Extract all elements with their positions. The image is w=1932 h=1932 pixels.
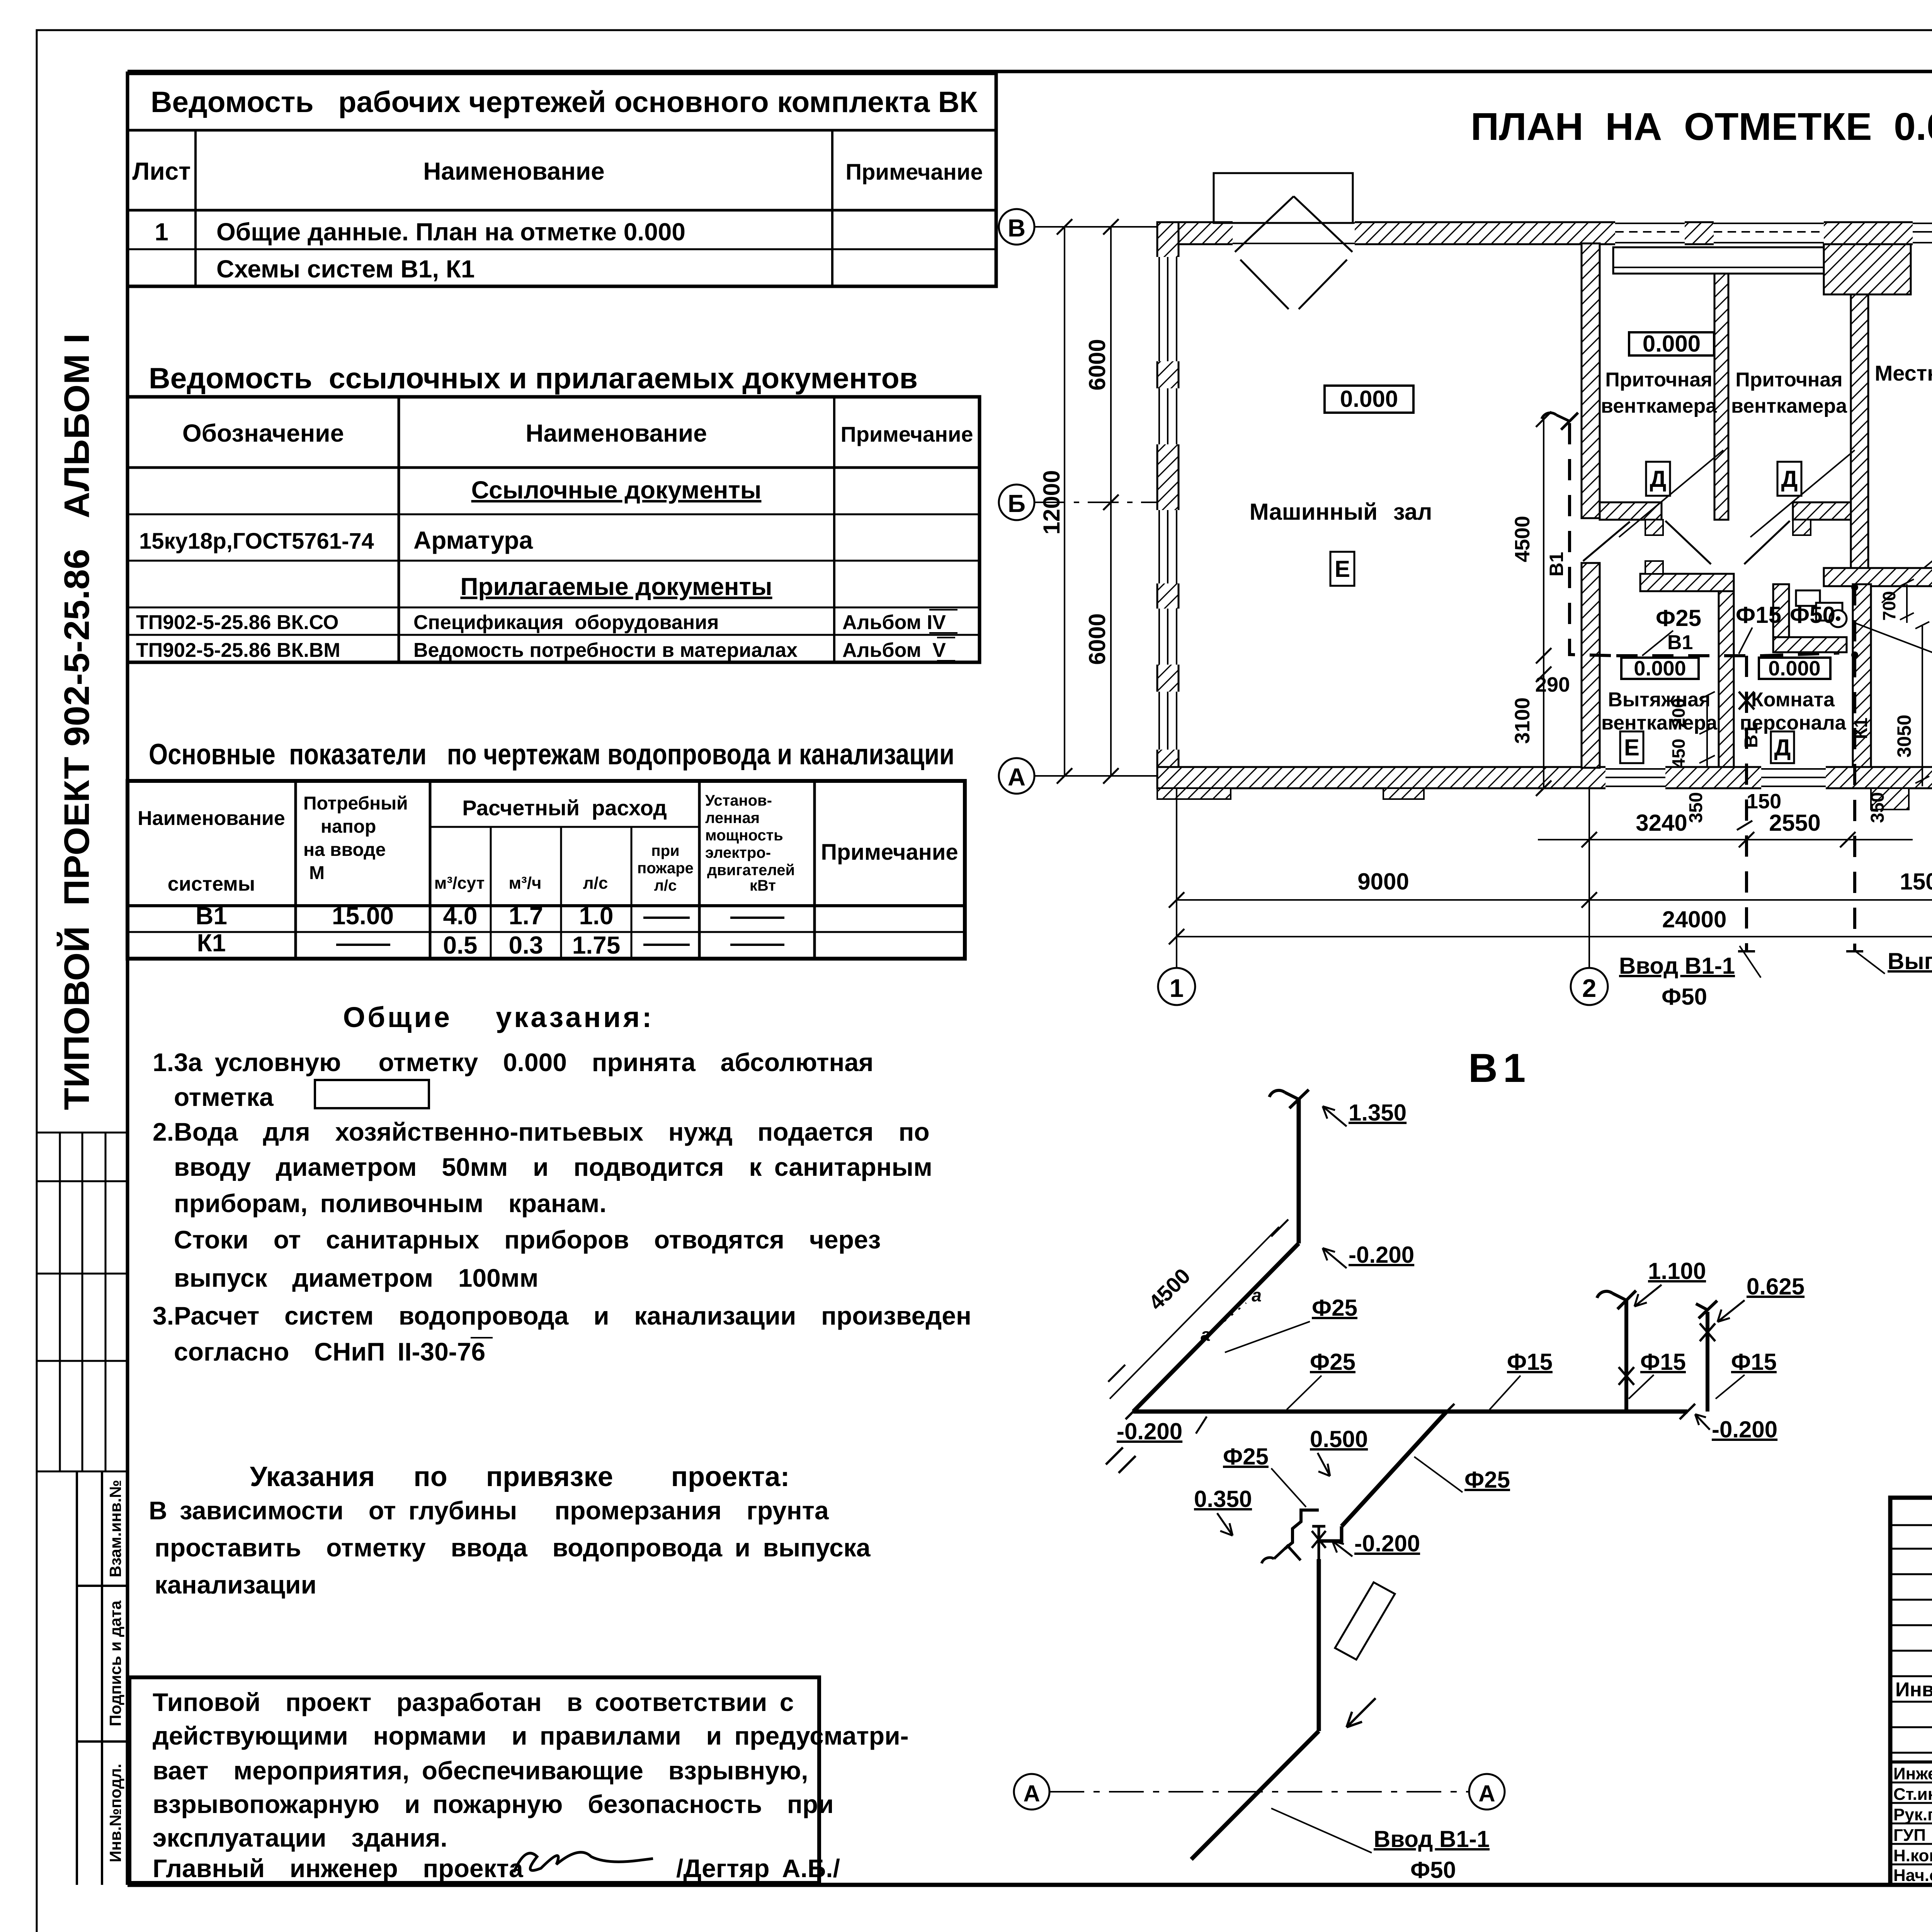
svg-text:при: при [651, 842, 679, 859]
svg-text:/Дегтяр А.Б./: /Дегтяр А.Б./ [676, 1854, 840, 1883]
foundation parallelogram [1335, 1582, 1395, 1660]
svg-text:Ст.инж.: Ст.инж. [1893, 1785, 1932, 1804]
bottom axis lines 1 2 3 [1176, 788, 1177, 968]
svg-text:В1: В1 [1667, 631, 1693, 654]
svg-text:0.350: 0.350 [1194, 1486, 1252, 1512]
svg-text:В зависимости от глубины пр: В зависимости от глубины промерзания гру… [149, 1496, 829, 1525]
svg-text:3.Расчет систем водопровода: 3.Расчет систем водопровода и канализаци… [153, 1301, 971, 1330]
svg-text:12000: 12000 [1039, 470, 1065, 535]
svg-text:Ф25: Ф25 [1312, 1295, 1357, 1321]
table 1: Ведомость рабочих чертежей основного комплекта ВК [128, 73, 996, 286]
svg-text:Расчетный расход: Расчетный расход [462, 796, 667, 820]
svg-text:А: А [1023, 1781, 1040, 1806]
svg-text:В1: В1 [1468, 1046, 1531, 1091]
svg-text:Типовой проект разработан в: Типовой проект разработан в соответствии… [153, 1688, 794, 1716]
svg-text:Б: Б [1008, 490, 1026, 517]
svg-text:м³/сут: м³/сут [434, 874, 485, 893]
svg-text:Машинный зал: Машинный зал [1250, 499, 1432, 525]
svg-text:Общие указания:: Общие указания: [343, 1001, 654, 1033]
svg-text:0.625: 0.625 [1747, 1274, 1804, 1299]
vertical dim line 12000 [1064, 227, 1065, 776]
svg-text:К1: К1 [1851, 718, 1871, 739]
svg-text:Главный инженер проекта: Главный инженер проекта [153, 1854, 524, 1883]
svg-text:Указания по привязке проек: Указания по привязке проекта: [250, 1461, 790, 1492]
svg-text:Ф25: Ф25 [1310, 1349, 1355, 1375]
left axis circles В Б А [999, 209, 1034, 245]
svg-text:а: а [1252, 1285, 1262, 1305]
svg-text:электро-: электро- [705, 844, 771, 861]
svg-text:проставить отметку ввода во: проставить отметку ввода водопровода и в… [155, 1533, 871, 1562]
svg-text:согласно СНиП II-30-76: согласно СНиП II-30-76 [174, 1337, 485, 1366]
svg-text:Прилагаемые документы: Прилагаемые документы [460, 573, 772, 600]
svg-text:9000: 9000 [1357, 869, 1409, 895]
wall H3 (top of exhaust vent room) [1640, 574, 1734, 591]
door gaps in bottom wall [1605, 765, 1826, 790]
svg-text:Ф15: Ф15 [1736, 602, 1781, 628]
horizontal main [1133, 1410, 1687, 1414]
entry vertical pipe [1317, 1559, 1321, 1731]
svg-text:К1: К1 [197, 929, 226, 957]
wall H2 (bottom of dispatch room / top of switchboard room) [1824, 568, 1932, 586]
svg-text:0.000: 0.000 [1768, 657, 1820, 680]
room label: machine hall elevation 0.000 [1325, 386, 1413, 413]
svg-text:-0.200: -0.200 [1354, 1531, 1420, 1556]
svg-text:венткамера: венткамера [1731, 395, 1847, 417]
entrance porch [1214, 173, 1353, 223]
svg-text:Инв.N: Инв.N [1895, 1679, 1932, 1701]
dim line 24000 [1177, 936, 1932, 937]
exterior top wall [1157, 222, 1932, 244]
B1 horizontal dashed pipe [1616, 654, 1762, 657]
svg-text:Приточная: Приточная [1735, 369, 1842, 391]
dim line 4500 along slope [1110, 1227, 1279, 1399]
svg-text:венткамера: венткамера [1601, 395, 1717, 417]
svg-text:Ф25: Ф25 [1656, 605, 1701, 631]
svg-text:Стоки от санитарных приборо: Стоки от санитарных приборов отводятся ч… [174, 1225, 881, 1254]
dim ticks near wall 290/4500/3100 [1543, 419, 1544, 788]
svg-text:венткамера: венткамера [1601, 712, 1718, 734]
svg-text:ленная: ленная [705, 810, 760, 827]
svg-text:А: А [1478, 1781, 1495, 1806]
svg-text:Наименование: Наименование [423, 157, 605, 185]
svg-text:Д: Д [1774, 735, 1791, 760]
svg-text:1.7: 1.7 [509, 902, 543, 930]
svg-text:Обозначение: Обозначение [182, 419, 344, 447]
svg-text:Ф15: Ф15 [1507, 1349, 1553, 1375]
fitting assembly at entry point [1319, 1526, 1342, 1541]
svg-text:Комната: Комната [1751, 689, 1835, 711]
porch canopy diamond [1235, 196, 1352, 309]
svg-text:Ф50: Ф50 [1662, 984, 1707, 1010]
long door indication lines [1619, 450, 1723, 537]
svg-text:450: 450 [1668, 739, 1689, 769]
svg-text:3100: 3100 [1511, 697, 1534, 744]
svg-text:Выпуск К1-1: Выпуск К1-1 [1888, 948, 1932, 974]
svg-text:Арматура: Арматура [413, 526, 533, 554]
svg-text:350: 350 [1867, 792, 1888, 823]
svg-text:л/с: л/с [654, 877, 677, 894]
svg-text:4500: 4500 [1511, 516, 1534, 562]
svg-text:Подпись и дата: Подпись и дата [106, 1600, 124, 1726]
svg-text:ТИПОВОЙ ПРОЕКТ 902-5-25.86: ТИПОВОЙ ПРОЕКТ 902-5-25.86 АЛЬБОМ I [56, 333, 97, 1110]
svg-text:В1: В1 [196, 902, 227, 930]
room label: supply vent 1 [1629, 332, 1714, 355]
svg-text:напор: напор [321, 816, 376, 837]
svg-text:1.75: 1.75 [572, 931, 621, 959]
svg-text:мощность: мощность [705, 827, 783, 844]
signature of chief engineer [514, 1852, 653, 1872]
wall Wb head block [1824, 244, 1911, 294]
exterior bottom wall [1157, 767, 1932, 788]
svg-text:Примечание: Примечание [845, 160, 983, 185]
dim line 9000 / 15000 [1177, 899, 1932, 901]
svg-text:Схемы систем В1, К1: Схемы систем В1, К1 [216, 255, 475, 283]
svg-text:0.5: 0.5 [443, 931, 478, 959]
svg-text:Примечание: Примечание [840, 422, 973, 446]
vent louver band [1613, 247, 1851, 274]
svg-text:Ф15: Ф15 [1731, 1349, 1777, 1375]
svg-text:Нач.отд.: Нач.отд. [1893, 1866, 1932, 1885]
svg-text:3050: 3050 [1893, 714, 1915, 757]
svg-text:Ведомость потребности в матери: Ведомость потребности в материалах [413, 639, 798, 662]
K1 stack symbol [1830, 610, 1847, 627]
sanitary fixtures [1796, 590, 1820, 606]
svg-text:1: 1 [155, 218, 168, 246]
svg-text:канализации: канализации [155, 1570, 316, 1599]
svg-text:Взам.инв.№: Взам.инв.№ [106, 1480, 124, 1577]
arrow on entry pipe [1347, 1698, 1376, 1727]
svg-text:В1: В1 [1546, 552, 1567, 577]
svg-text:200: 200 [1668, 698, 1689, 728]
svg-text:выпуск диаметром 100мм: выпуск диаметром 100мм [174, 1264, 538, 1292]
svg-text:вает мероприятия, обеспечиваю: вает мероприятия, обеспечивающие взрывну… [153, 1756, 808, 1785]
svg-text:приборам, поливочным кранам.: приборам, поливочным кранам. [174, 1189, 607, 1218]
svg-text:м³/ч: м³/ч [509, 874, 542, 893]
svg-text:Альбом V: Альбом V [842, 639, 946, 662]
svg-text:1: 1 [1170, 974, 1184, 1002]
svg-text:0.3: 0.3 [509, 931, 543, 959]
svg-text:Вытяжная: Вытяжная [1608, 689, 1710, 711]
svg-text:ПЛАН НА ОТМЕТКЕ 0.000: ПЛАН НА ОТМЕТКЕ 0.000 [1471, 105, 1932, 148]
category box Е (machine hall) [1330, 552, 1354, 586]
svg-text:Д: Д [1781, 466, 1798, 492]
svg-text:1.0: 1.0 [579, 902, 614, 930]
svg-text:0.000: 0.000 [1643, 331, 1701, 357]
svg-text:6000: 6000 [1084, 613, 1110, 665]
svg-text:Д: Д [1650, 466, 1667, 492]
svg-text:2: 2 [1582, 974, 1597, 1002]
svg-text:эксплуатации здания.: эксплуатации здания. [153, 1823, 447, 1852]
svg-text:0.000: 0.000 [1340, 386, 1398, 412]
svg-text:-0.200: -0.200 [1117, 1418, 1182, 1444]
svg-text:Е: Е [1335, 556, 1350, 582]
svg-text:Примечание: Примечание [821, 840, 958, 865]
svg-text:Приточная: Приточная [1605, 369, 1712, 391]
svg-text:Ввод В1-1: Ввод В1-1 [1619, 953, 1735, 979]
svg-text:1.100: 1.100 [1648, 1258, 1706, 1284]
svg-text:В1: В1 [1741, 724, 1762, 748]
svg-text:290: 290 [1535, 673, 1570, 696]
svg-text:Е: Е [1624, 735, 1639, 760]
svg-text:4.0: 4.0 [443, 902, 478, 930]
svg-text:Лист: Лист [132, 157, 190, 185]
bottom note box [129, 1677, 819, 1883]
svg-text:Наименование: Наименование [526, 419, 707, 447]
pilasters under bottom wall [1157, 788, 1231, 799]
svg-text:Основные показатели по черт: Основные показатели по чертежам водопров… [149, 738, 954, 771]
interior wall W1 upper (machine hall | vent rooms) [1582, 243, 1600, 518]
wall W4 (staff room | switchboard room) [1853, 584, 1871, 767]
svg-text:Ф25: Ф25 [1464, 1467, 1510, 1493]
svg-text:24000: 24000 [1662, 906, 1727, 932]
room label: exhaust vent room [1621, 658, 1699, 679]
sloped main 4500 [1133, 1243, 1299, 1412]
svg-text:л/с: л/с [583, 874, 608, 893]
door leaves of vent rooms [1665, 521, 1711, 564]
sanitary unit walls [1773, 584, 1789, 652]
wall Wb (supply vent 2 | dispatch room) [1851, 294, 1868, 568]
svg-text:15ку18р,ГОСТ5761-74: 15ку18р,ГОСТ5761-74 [139, 529, 374, 554]
branch slope to entry [1342, 1412, 1447, 1526]
svg-text:2550: 2550 [1769, 810, 1820, 836]
svg-text:М: М [309, 863, 325, 883]
svg-text:1.3а условную отметку 0.000: 1.3а условную отметку 0.000 принята абсо… [153, 1048, 874, 1077]
svg-text:а: а [1201, 1325, 1211, 1345]
svg-text:взрывопожарную и пожарную бе: взрывопожарную и пожарную безопасность п… [153, 1790, 834, 1818]
svg-text:Местный диспетчерский пункт: Местный диспетчерский пункт [1875, 361, 1932, 385]
svg-text:150: 150 [1747, 790, 1781, 813]
svg-text:отметка: отметка [174, 1083, 274, 1111]
svg-text:-0.200: -0.200 [1712, 1417, 1777, 1442]
exterior left wall [1157, 222, 1179, 788]
svg-text:350: 350 [1686, 792, 1706, 823]
windows in top wall over vent chambers [1615, 220, 1932, 246]
svg-text:Ввод В1-1: Ввод В1-1 [1374, 1826, 1490, 1852]
svg-text:В: В [1008, 214, 1026, 242]
svg-text:0.000: 0.000 [1634, 657, 1686, 680]
svg-text:двигателей: двигателей [707, 862, 795, 879]
svg-text:А: А [1008, 763, 1026, 791]
wall Wa (supply vent 1 | supply vent 2) [1714, 274, 1728, 520]
svg-text:Установ-: Установ- [705, 792, 772, 809]
svg-text:15.00: 15.00 [332, 902, 394, 930]
B1 riser dashed (to entry) [1745, 656, 1748, 951]
svg-text:Ф50: Ф50 [1790, 602, 1835, 628]
svg-text:вводу диаметром 50мм и под: вводу диаметром 50мм и подводится к сани… [174, 1153, 932, 1181]
room label: staff room [1759, 658, 1830, 679]
svg-text:на вводе: на вводе [303, 840, 386, 860]
svg-text:Альбом IV: Альбом IV [842, 611, 946, 634]
svg-text:Ведомость ссылочных и прилага: Ведомость ссылочных и прилагаемых докуме… [149, 362, 918, 395]
svg-text:1.350: 1.350 [1349, 1100, 1406, 1126]
svg-text:Потребный: Потребный [303, 793, 408, 814]
wall W2 (exhaust vent | staff room) [1719, 591, 1734, 767]
windows in left wall [1155, 257, 1180, 750]
K1 riser dashed (to outlet) [1853, 584, 1856, 951]
vertical dim line 6000+6000 [1110, 227, 1112, 776]
svg-text:Общие данные. План на отметке: Общие данные. План на отметке 0.000 [216, 218, 685, 246]
svg-text:Ф15: Ф15 [1640, 1349, 1686, 1375]
svg-text:700: 700 [1879, 591, 1899, 621]
svg-text:Наименование: Наименование [138, 807, 285, 830]
svg-text:действующими нормами и прави: действующими нормами и правилами и преду… [153, 1721, 909, 1750]
svg-text:системы: системы [168, 873, 255, 895]
svg-text:-0.200: -0.200 [1349, 1242, 1414, 1268]
svg-text:6000: 6000 [1084, 339, 1110, 390]
svg-text:ТП902-5-25.86 ВК.ВМ: ТП902-5-25.86 ВК.ВМ [136, 639, 340, 662]
wall H1 segment a (bottom of supply vent 1) [1600, 502, 1662, 520]
dim line 3240 / 2550 [1538, 839, 1913, 840]
svg-text:Ведомость рабочих чертежей о: Ведомость рабочих чертежей основного ком… [151, 86, 978, 119]
B1 water line in machine hall (dashed) with hose bib [1570, 423, 1616, 656]
svg-text:0.500: 0.500 [1310, 1426, 1368, 1452]
left strip lower boxes [77, 1471, 128, 1885]
left strip stamp grid [37, 1133, 128, 1471]
svg-text:3240: 3240 [1636, 810, 1687, 836]
svg-text:пожаре: пожаре [637, 860, 694, 877]
svg-text:Инв.№подл.: Инв.№подл. [106, 1764, 124, 1862]
interior wall W1 lower [1582, 563, 1600, 768]
svg-text:ТП902-5-25.86 ВК.СО: ТП902-5-25.86 ВК.СО [136, 611, 338, 634]
svg-text:кВт: кВт [750, 877, 776, 894]
svg-text:Спецификация оборудования: Спецификация оборудования [413, 611, 719, 634]
svg-text:Ссылочные документы: Ссылочные документы [471, 476, 762, 504]
svg-text:Ф50: Ф50 [1410, 1857, 1456, 1883]
svg-text:Н.контр.: Н.контр. [1893, 1846, 1932, 1865]
svg-text:15000: 15000 [1900, 869, 1932, 895]
door leaf machine hall [1583, 522, 1630, 561]
right risers [1624, 1300, 1628, 1412]
svg-text:Инженер: Инженер [1893, 1764, 1932, 1783]
section line A-A [1014, 1774, 1049, 1810]
entry slope out [1191, 1731, 1319, 1859]
svg-text:Ф25: Ф25 [1223, 1444, 1269, 1469]
svg-text:Рук.гр.: Рук.гр. [1893, 1805, 1932, 1824]
svg-text:2.Вода для хозяйственно-пить: 2.Вода для хозяйственно-питьевых нужд по… [153, 1117, 930, 1146]
entrance door gap in top wall [1233, 220, 1355, 246]
riser with hose bib at 1.350 [1297, 1099, 1301, 1243]
wall H1 segment b (bottom of supply vent 2) [1793, 502, 1851, 520]
svg-text:ГУП: ГУП [1893, 1826, 1926, 1845]
